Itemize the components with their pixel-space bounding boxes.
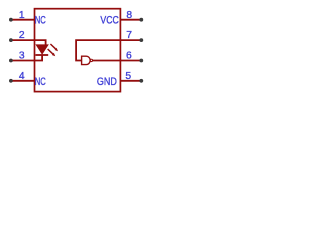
pin 1 wire — [12, 19, 35, 21]
pin 3 wire — [12, 60, 35, 62]
pin 6 wire external — [120, 60, 140, 62]
pin 1 dot — [9, 18, 13, 22]
gate output bubble — [90, 59, 92, 61]
pin 7 wire external — [120, 39, 140, 41]
svg-text:5: 5 — [125, 71, 131, 82]
component body U1 — [35, 9, 121, 92]
svg-text:VCC: VCC — [100, 14, 119, 26]
svg-text:4: 4 — [19, 71, 25, 82]
light emission arrow 2 — [48, 49, 56, 56]
LED D1 anode wire from pin 2 — [35, 40, 46, 45]
svg-text:3: 3 — [19, 51, 25, 62]
svg-text:NC: NC — [35, 14, 46, 26]
LED D1 triangle — [36, 45, 48, 54]
light emission arrow 1 — [50, 44, 58, 51]
pin 5 dot — [139, 79, 143, 83]
pin 4 wire — [12, 80, 35, 82]
svg-text:2: 2 — [19, 30, 25, 41]
svg-text:6: 6 — [126, 51, 132, 62]
svg-text:8: 8 — [126, 10, 132, 21]
svg-text:7: 7 — [126, 30, 132, 41]
gate U1B body — [82, 56, 91, 64]
svg-text:GND: GND — [97, 76, 117, 88]
pin 5 wire external — [120, 80, 140, 82]
pin 2 wire — [12, 39, 35, 41]
pin 6 dot — [139, 59, 143, 63]
pin 2 dot — [9, 38, 13, 42]
pin 8 dot — [139, 18, 143, 22]
LED D1 cathode wire to pin 3 — [35, 55, 43, 61]
pin 3 dot — [9, 59, 13, 63]
enable wire from pin 7 to gate — [76, 40, 120, 60]
LED D1 cathode bar — [36, 54, 49, 56]
pin 7 dot — [139, 38, 143, 42]
pin 4 dot — [9, 79, 13, 83]
pin 8 wire — [120, 19, 140, 21]
svg-text:NC: NC — [35, 76, 46, 88]
svg-text:1: 1 — [19, 10, 25, 21]
gate output wire to pin 6 — [92, 60, 120, 62]
